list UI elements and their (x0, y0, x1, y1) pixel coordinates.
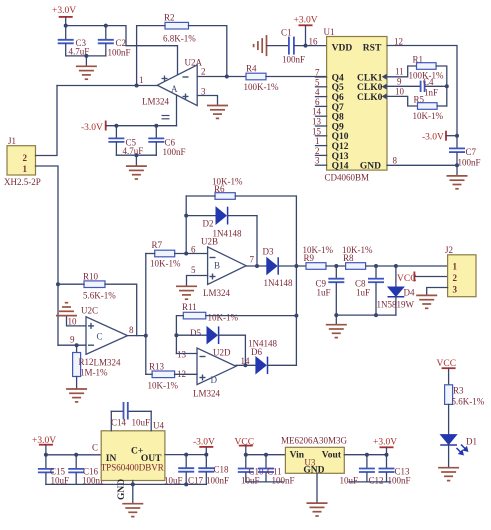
svg-text:100nF: 100nF (163, 147, 186, 157)
svg-text:10K-1%: 10K-1% (413, 111, 444, 121)
svg-text:D2: D2 (203, 219, 214, 229)
svg-text:C+: C+ (131, 447, 143, 457)
svg-text:1: 1 (23, 164, 28, 174)
ground (below C7) (447, 176, 468, 189)
ground (J2 pin3) (416, 295, 437, 308)
resistor R12 (73, 345, 108, 389)
svg-text:+3.0V: +3.0V (373, 438, 397, 448)
wire vertical U2C out to R7 and R13 (145, 254, 147, 375)
svg-text:10uF: 10uF (132, 418, 151, 428)
op-amp U2D (193, 348, 236, 399)
svg-text:R2: R2 (164, 13, 175, 23)
wire R2 left to U2A output (137, 26, 165, 86)
svg-text:100K-1%: 100K-1% (244, 82, 279, 92)
diode D3 (263, 247, 293, 289)
power -3.0V (bottom) (193, 438, 215, 455)
ground (below R12) (66, 389, 87, 402)
wire U4 OUT rail (165, 454, 206, 456)
svg-text:11: 11 (395, 67, 404, 77)
wire U2D output (236, 364, 256, 366)
svg-text:B: B (214, 261, 220, 271)
svg-text:U1: U1 (324, 27, 335, 37)
wire R1 right down (436, 66, 447, 106)
wire D1 to ground (448, 445, 450, 467)
wire U2C pin9 stub (58, 344, 86, 346)
wire R10 left (58, 283, 84, 285)
svg-text:U2B: U2B (201, 237, 218, 247)
wire U2A pin3 to ground (197, 96, 217, 105)
ground (U3 GND) (307, 503, 328, 516)
svg-text:C7: C7 (466, 147, 477, 157)
capacitor C9 (316, 266, 345, 315)
resistor R10 (83, 272, 116, 301)
svg-text:1uF: 1uF (317, 288, 331, 298)
svg-text:10uF: 10uF (340, 476, 359, 486)
wire R13 right to U2D pin12 (175, 373, 197, 375)
svg-text:TPS60400DBVR: TPS60400DBVR (101, 463, 164, 473)
U1 clock input arrows (382, 74, 387, 100)
svg-text:Q8: Q8 (332, 113, 344, 123)
svg-text:LM324: LM324 (203, 288, 231, 298)
wire U3 Vout rail (344, 454, 386, 456)
capacitor C10 (238, 455, 264, 486)
svg-text:10K-1%: 10K-1% (150, 259, 181, 269)
svg-text:C4: C4 (423, 77, 434, 87)
svg-text:LM324: LM324 (193, 389, 221, 399)
wire VCC to J2 pin2 (414, 276, 447, 278)
svg-text:10K-1%: 10K-1% (148, 381, 179, 391)
svg-text:10: 10 (68, 317, 78, 327)
svg-text:RST: RST (363, 44, 382, 54)
power VCC (bottom) (235, 438, 255, 455)
svg-text:R13: R13 (149, 362, 165, 372)
U1 left pin numbers (312, 68, 322, 166)
wire D5 cathode down to U2D output (244, 335, 246, 365)
power +3.0V (top left) (52, 6, 76, 26)
svg-text:8: 8 (129, 325, 134, 335)
svg-text:3: 3 (453, 285, 458, 295)
capacitor C3 (58, 26, 90, 57)
wire U2C pin10 to ground (67, 316, 87, 326)
wire R9 to R8 (326, 265, 346, 267)
svg-text:5.6K-1%: 5.6K-1% (452, 397, 485, 407)
op-amp U2A (142, 58, 202, 107)
wire U2A pin2 to R4 (197, 76, 246, 78)
capacitor C1 (267, 28, 327, 65)
resistor R4 (244, 64, 279, 93)
node dot C3 top (64, 24, 68, 28)
resistor R7 (150, 240, 181, 269)
svg-text:GND: GND (360, 162, 381, 172)
power +3.0V (U1 VDD) (294, 16, 318, 48)
svg-text:1: 1 (139, 75, 144, 85)
U2A V- power pin (162, 95, 177, 126)
resistor R11 (182, 302, 238, 323)
ground (U2B pin5) (176, 286, 197, 299)
svg-text:J1: J1 (8, 136, 16, 146)
svg-text:LM324: LM324 (94, 358, 122, 368)
op-amp U2B (201, 237, 246, 299)
svg-text:100nF: 100nF (108, 48, 131, 58)
wire bottom ground rail (left block) (46, 483, 206, 485)
capacitor C2 (98, 26, 131, 58)
svg-text:+3.0V: +3.0V (294, 16, 318, 26)
svg-text:6: 6 (191, 245, 196, 255)
svg-text:U2D: U2D (213, 348, 231, 358)
svg-text:4.7uF: 4.7uF (123, 146, 144, 156)
resistor R6 (212, 177, 243, 200)
svg-text:2: 2 (315, 146, 320, 156)
svg-text:1N4148: 1N4148 (248, 339, 277, 349)
wire pin10 to R5 (387, 96, 418, 106)
svg-text:Vout: Vout (322, 451, 342, 461)
svg-text:Q9: Q9 (332, 122, 344, 132)
wire U2A output (57, 85, 157, 87)
svg-text:C: C (97, 332, 103, 342)
svg-text:Q12: Q12 (332, 142, 349, 152)
svg-text:D1: D1 (466, 437, 477, 447)
resistor R1 (409, 55, 444, 81)
svg-text:1nF: 1nF (424, 88, 438, 98)
svg-text:100nF: 100nF (282, 55, 305, 65)
svg-text:100nF: 100nF (272, 476, 295, 486)
svg-text:J2: J2 (445, 245, 453, 255)
svg-text:-3.0V: -3.0V (422, 133, 444, 143)
ground (U2C pin10, inverted) (56, 303, 77, 316)
resistor R5 (413, 95, 444, 122)
IC U1 CD4060BM (324, 27, 388, 183)
svg-text:Q7: Q7 (332, 103, 344, 113)
svg-text:16: 16 (309, 37, 319, 47)
svg-text:GND: GND (303, 466, 324, 476)
power -3.0V (right) (422, 131, 459, 143)
connector J1 (4, 136, 41, 187)
U1 left pin stubs (316, 77, 327, 165)
svg-text:LM324: LM324 (142, 97, 170, 107)
svg-text:Q5: Q5 (332, 83, 344, 93)
diode D2 (186, 207, 257, 239)
wire VCC rail to U3 Vin (246, 454, 286, 456)
svg-text:Q14: Q14 (332, 162, 349, 172)
svg-text:9: 9 (70, 335, 75, 345)
power VCC (R3/D1 column) (437, 359, 457, 385)
svg-text:XH2.5-2P: XH2.5-2P (4, 177, 41, 187)
wire R5 right (437, 105, 447, 107)
svg-text:15: 15 (312, 126, 322, 136)
capacitor C15 (38, 455, 69, 486)
svg-text:10uF: 10uF (164, 476, 183, 486)
svg-text:C: C (92, 443, 98, 453)
svg-text:100nF: 100nF (458, 158, 481, 168)
capacitor C7 (449, 147, 481, 176)
capacitor C5 (108, 126, 143, 156)
wire J2 pin3 to ground (427, 288, 448, 296)
wire +3.0V rail (66, 26, 178, 75)
svg-text:9: 9 (397, 77, 402, 87)
wire J1 pin1 down to U2C pin9 (36, 166, 59, 345)
svg-text:5.6K-1%: 5.6K-1% (83, 291, 116, 301)
svg-text:CLK0: CLK0 (357, 93, 383, 103)
wire D2 cathode down to U2B output (256, 216, 258, 266)
wire U1 GND to right vertical (387, 164, 457, 166)
ground (below C3/C2) (76, 56, 97, 79)
svg-text:-3.0V: -3.0V (81, 123, 103, 133)
capacitor C4 (387, 77, 447, 98)
svg-text:Vin: Vin (290, 451, 305, 461)
wire C3/C2 bottom rail (66, 55, 106, 57)
capacitor C17 (164, 455, 204, 486)
resistor R8 (342, 245, 373, 269)
svg-text:R8: R8 (343, 253, 354, 263)
capacitor C14 (flying cap) (111, 402, 151, 431)
svg-text:R9: R9 (304, 253, 315, 263)
IC U4 TPS60400DBVR (101, 421, 165, 501)
wire R11 left (176, 316, 183, 354)
wire -3.0V rail (106, 125, 177, 127)
wire R11 right to node vertical (206, 315, 297, 317)
capacitor C6 (148, 126, 185, 157)
svg-text:C14: C14 (111, 418, 127, 428)
svg-text:2: 2 (201, 67, 206, 77)
IC U3 ME6206A30M3G (281, 436, 348, 476)
svg-text:5: 5 (315, 77, 320, 87)
svg-text:4: 4 (315, 87, 320, 97)
wire C10/C11 bottom rail (246, 481, 283, 483)
resistor R3 (445, 385, 485, 407)
svg-text:100nF: 100nF (206, 476, 229, 486)
svg-text:6.8K-1%: 6.8K-1% (163, 34, 196, 44)
svg-text:C6: C6 (165, 138, 176, 148)
resistor R9 (303, 245, 334, 269)
svg-text:1N4148: 1N4148 (264, 278, 293, 288)
svg-text:Q13: Q13 (332, 152, 349, 162)
svg-text:Q6: Q6 (332, 93, 344, 103)
power +3.0V (bottom left) (32, 436, 56, 455)
svg-text:10: 10 (395, 87, 405, 97)
op-amp U2C (81, 306, 128, 368)
wire vertical R6/D2/pin6 (185, 196, 187, 254)
ground (U2A pin3) (207, 106, 228, 119)
svg-text:A: A (171, 84, 178, 94)
svg-text:U2C: U2C (81, 306, 98, 316)
svg-text:C12: C12 (369, 476, 384, 486)
svg-text:D3: D3 (263, 247, 274, 257)
capacitor C12 (340, 455, 384, 486)
wire R4 to U1 pin7 (266, 76, 327, 78)
ground (below C5/C6) (126, 155, 147, 179)
svg-text:13: 13 (312, 117, 322, 127)
capacitor C16 (68, 455, 105, 486)
svg-text:Q4: Q4 (332, 73, 344, 83)
svg-text:1M-1%: 1M-1% (80, 368, 108, 378)
svg-text:2: 2 (23, 153, 28, 163)
svg-text:6: 6 (315, 97, 320, 107)
svg-text:8: 8 (393, 156, 398, 166)
svg-text:R10: R10 (83, 272, 99, 282)
wire R10 right to U2C output (105, 284, 137, 335)
svg-text:7: 7 (315, 68, 320, 78)
svg-text:10uF: 10uF (241, 476, 260, 486)
LED D1 (440, 435, 477, 455)
wire U2B output (246, 265, 267, 267)
svg-text:3: 3 (315, 156, 320, 166)
svg-text:2: 2 (453, 273, 458, 283)
wire pin11 to R1 (387, 66, 417, 77)
svg-text:R12: R12 (79, 357, 94, 367)
svg-text:1: 1 (315, 136, 320, 146)
wire U1 RST to right vertical (387, 46, 457, 149)
wire R6 left (186, 195, 215, 197)
wire U2B pin5 to ground (187, 276, 208, 287)
svg-text:D5: D5 (190, 328, 201, 338)
ground (U4 GND) (122, 504, 143, 517)
svg-text:ME6206A30M3G: ME6206A30M3G (281, 436, 348, 446)
wire R7 right to U2B pin6 (175, 253, 208, 255)
diode D4 (1N5819W) (377, 266, 415, 315)
svg-text:U4: U4 (153, 421, 164, 431)
wire C12/C13 bottom rail (349, 481, 391, 483)
wire D3 cathode to node (278, 265, 306, 267)
wire D6 cathode up to node (268, 364, 297, 366)
wire C5/C6 bottom rail (116, 154, 156, 156)
svg-text:CD4060BM: CD4060BM (325, 173, 370, 183)
power +3.0V (bottom right) (373, 438, 397, 455)
svg-text:R7: R7 (152, 240, 163, 250)
wire R8 right to J2 pin1 (366, 265, 448, 267)
capacitor C11 (258, 455, 295, 486)
wire R3 to D1 (448, 404, 450, 434)
svg-text:5: 5 (191, 265, 196, 275)
wire U4 GND stem (132, 481, 134, 504)
svg-text:1N5819W: 1N5819W (377, 300, 415, 310)
svg-text:1uF: 1uF (356, 288, 370, 298)
svg-text:VDD: VDD (332, 44, 353, 54)
svg-text:13: 13 (177, 350, 187, 360)
diode D5 (176, 326, 245, 371)
svg-text:U2A: U2A (185, 58, 203, 68)
svg-text:1: 1 (453, 262, 458, 272)
svg-text:10K-1%: 10K-1% (208, 313, 239, 323)
resistor R2 (163, 13, 196, 44)
power VCC (J2 pin2) (397, 272, 417, 285)
svg-text:14: 14 (312, 107, 322, 117)
svg-text:C17: C17 (188, 476, 204, 486)
wire ground rail C9/C8/D4 (336, 314, 396, 316)
wire U2D pin13 stub (176, 353, 197, 355)
svg-text:Q10: Q10 (332, 132, 349, 142)
svg-text:C18: C18 (214, 465, 230, 475)
svg-text:D4: D4 (404, 288, 415, 298)
wire U2C output (128, 335, 146, 337)
wire R6 right down to output node (235, 196, 296, 365)
ground (sideways, left of C1) (254, 35, 267, 56)
svg-text:100nF: 100nF (388, 476, 411, 486)
svg-text:D: D (211, 375, 218, 385)
svg-text:C1: C1 (281, 28, 292, 38)
svg-text:R11: R11 (182, 302, 197, 312)
wire J1 pin2 to U2A output (36, 86, 58, 156)
svg-text:GND: GND (117, 479, 127, 500)
resistor R13 (148, 362, 179, 391)
capacitor C18 (198, 455, 229, 486)
wire U3 GND stem (316, 473, 318, 503)
capacitor C8 (355, 266, 384, 315)
diode D6 (248, 339, 277, 375)
capacitor C13 (379, 455, 411, 486)
wire R2 right to U2A inverting input (189, 26, 227, 77)
ground (below C9) (326, 315, 347, 338)
wire R13 left (146, 373, 152, 375)
svg-text:C2: C2 (116, 38, 127, 48)
svg-text:D6: D6 (251, 347, 262, 357)
svg-text:CLK1: CLK1 (357, 73, 383, 83)
svg-text:+3.0V: +3.0V (52, 6, 76, 16)
ground (below D1) (438, 468, 459, 481)
node dot C2 top (104, 24, 108, 28)
svg-text:R3: R3 (453, 386, 464, 396)
svg-text:R4: R4 (246, 64, 257, 74)
svg-text:CLK0: CLK0 (357, 83, 383, 93)
svg-text:7: 7 (250, 255, 255, 265)
power -3.0V (left) (81, 121, 106, 134)
wire R7 left (146, 253, 155, 255)
wire +3.0V rail to U4 IN (46, 454, 101, 456)
connector J2 (445, 245, 476, 297)
